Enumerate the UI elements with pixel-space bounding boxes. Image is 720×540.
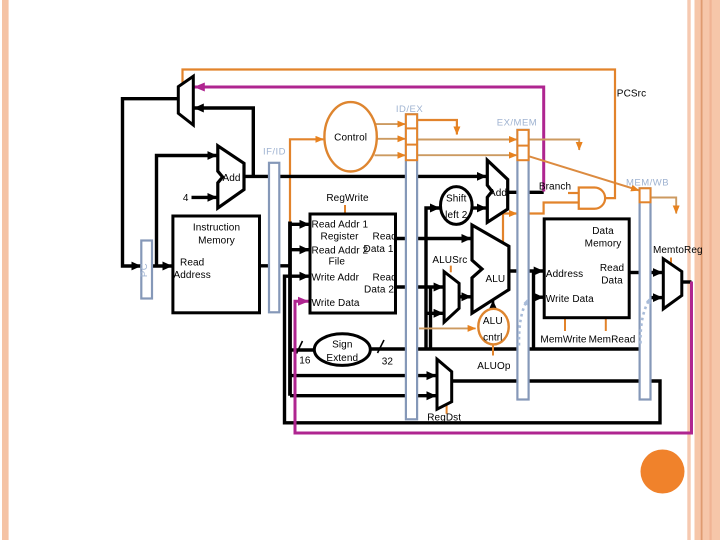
pipeline register EX/MEM (517, 130, 528, 400)
wire ID/EX control to EX/MEM cell 1 (417, 139, 517, 141)
sign extend oval (314, 334, 370, 366)
wire Control M output to ID/EX (377, 138, 406, 140)
dashed move arrow inside EX/MEM (519, 299, 528, 346)
wire branch target magenta to PC mux (194, 87, 543, 192)
svg-text:Instruction: Instruction (193, 223, 240, 234)
data memory (544, 219, 629, 318)
svg-text:File: File (329, 257, 346, 268)
bus width tick 32 (378, 340, 385, 353)
wire PC+4 from Add to branch Add (244, 175, 486, 178)
wire PCSrc from AND gate to PC mux select (183, 70, 616, 199)
mux ALUSrc (444, 272, 459, 323)
wire instruction opcode to Control (290, 139, 323, 223)
svg-text:ALUSrc: ALUSrc (432, 255, 467, 266)
wire ID/EX EX control elbow (417, 120, 457, 135)
svg-text:MEM/WB: MEM/WB (626, 178, 669, 189)
svg-text:Address: Address (546, 269, 583, 280)
label stub MemRead (605, 319, 607, 332)
wire Zero from EX/MEM to AND gate (529, 203, 579, 214)
wire riser to Shift left 2 and ALUSrc (426, 208, 440, 349)
wire ALU Zero to EX/MEM (503, 214, 517, 244)
svg-text:Shift: Shift (446, 194, 467, 205)
wire rd field to RegDst mux (290, 394, 436, 397)
svg-text:ALUOp: ALUOp (477, 361, 511, 372)
svg-text:Read Addr 1: Read Addr 1 (312, 220, 369, 231)
wire MEM/WB WB control elbow (651, 198, 677, 214)
label stub RegDst (446, 403, 448, 414)
wire PC+4 feedback to PC mux (194, 108, 253, 176)
mux MemtoReg (663, 259, 682, 309)
wire constant 4 into Add (192, 196, 217, 199)
svg-text:Write Data: Write Data (312, 298, 360, 309)
wire PC value up to Add (157, 156, 217, 267)
wire ALUSrc mux to ALU (459, 295, 471, 298)
wire EX/MEM WB control diagonal to MEM/WB (529, 156, 639, 190)
svg-text:32: 32 (382, 357, 394, 368)
pipeline register ID/EX (406, 114, 417, 419)
svg-text:Add: Add (489, 188, 507, 199)
svg-text:EX/MEM: EX/MEM (497, 118, 537, 129)
wire rt field to RegDst mux (290, 374, 436, 377)
wire Control EX output to ID/EX (375, 154, 406, 156)
wire Control WB output to ID/EX (375, 123, 406, 125)
wire EX/MEM M control elbow (529, 140, 580, 151)
svg-text:Control: Control (334, 133, 367, 144)
svg-text:Write Addr: Write Addr (312, 272, 360, 283)
svg-text:Extend: Extend (326, 353, 358, 364)
svg-text:PCSrc: PCSrc (617, 88, 646, 99)
wire sign extended value bus under Data Memory (370, 347, 640, 350)
wire Read Data 1 to ALU (396, 237, 472, 240)
wire MemtoReg mux output (682, 280, 692, 283)
svg-text:Read: Read (373, 272, 397, 283)
wire Read Data 2 down to write data bus (429, 287, 432, 349)
wire PC to Instruction Memory Read Address (152, 264, 172, 267)
svg-text:cntrl: cntrl (483, 333, 502, 344)
svg-text:Memory: Memory (198, 236, 235, 247)
control unit oval (324, 102, 376, 171)
wire instruction from Instruction Memory to IF/ID (260, 264, 291, 267)
wire ALU control bottom stub (492, 345, 494, 355)
wire instruction to Read Addr 2 (290, 248, 309, 251)
shift left 2 oval (441, 187, 473, 225)
label stub MemtoReg (670, 258, 672, 267)
AND gate branch (579, 188, 605, 209)
svg-text:IF/ID: IF/ID (263, 147, 286, 158)
wire Branch control stub to AND gate (568, 192, 578, 194)
adder Add branch target (487, 160, 507, 222)
svg-text:Register: Register (321, 231, 360, 242)
svg-text:Add: Add (223, 173, 241, 184)
svg-text:ID/EX: ID/EX (396, 104, 423, 115)
svg-text:Address: Address (174, 270, 211, 281)
wire to Data Memory Write Data (534, 296, 544, 299)
register file (310, 214, 397, 313)
svg-text:4: 4 (183, 193, 189, 204)
ID/EX control cells (406, 114, 417, 160)
svg-text:Sign: Sign (332, 340, 352, 351)
wire sign extend to ALUSrc mux input 2 (426, 312, 443, 315)
pipeline register MEM/WB (640, 188, 651, 399)
svg-text:RegDst: RegDst (427, 413, 461, 424)
svg-text:RegWrite: RegWrite (326, 193, 369, 204)
wire PC mux output to PC (123, 99, 179, 266)
adder Add PC+4 (218, 146, 244, 208)
svg-text:Data 2: Data 2 (364, 284, 394, 295)
svg-text:MemtoReg: MemtoReg (653, 245, 703, 256)
svg-text:Data 1: Data 1 (364, 244, 394, 255)
dashed move arrow inside MEM/WB (640, 297, 650, 344)
bus width tick 16 (297, 341, 303, 354)
mux PCSrc (top left) (178, 76, 193, 125)
wire Shift left 2 to branch Add (472, 206, 486, 209)
svg-text:ALU: ALU (486, 274, 506, 285)
svg-text:Read: Read (600, 263, 624, 274)
svg-text:ALU: ALU (483, 316, 503, 327)
wire ALU result riser (532, 271, 535, 349)
instruction memory (173, 216, 260, 313)
wire MEM/WB to MemtoReg mux input 2 (651, 296, 663, 299)
wire ID/EX control to EX/MEM cell 2 (417, 154, 517, 156)
svg-text:left 2: left 2 (445, 210, 468, 221)
ALU (472, 225, 509, 313)
wire ALUOp to ALU control (419, 327, 476, 329)
wire RegDst mux output loop to Write Addr (285, 276, 661, 423)
wire ALU result to Data Memory Address (509, 269, 543, 272)
pipeline register IF/ID (269, 163, 279, 312)
mux RegDst (437, 359, 452, 409)
wire ALU control to ALU (492, 301, 495, 312)
svg-text:MemRead: MemRead (589, 335, 636, 346)
svg-text:Memory: Memory (585, 239, 622, 250)
svg-text:Write Data: Write Data (546, 294, 594, 305)
svg-text:Read: Read (180, 258, 204, 269)
svg-text:Branch: Branch (539, 182, 571, 193)
wire instruction to Read Addr 1 (290, 223, 309, 226)
register PC (139, 241, 152, 299)
decorative orange circle (641, 450, 685, 494)
label stub MemWrite (564, 319, 566, 332)
wire Read Data out of Data Memory (629, 271, 640, 274)
EX/MEM control cells (517, 130, 528, 160)
svg-text:16: 16 (299, 356, 311, 367)
ALU control oval (478, 309, 508, 345)
svg-text:MemWrite: MemWrite (540, 335, 587, 346)
wire branch target from Add to EX/MEM (508, 191, 544, 194)
wire Read Data 2 to ALUSrc mux input 1 (396, 285, 444, 288)
wire immediate to Sign Extend (290, 348, 315, 351)
MEM/WB control cell (640, 188, 651, 202)
svg-text:Read Addr 2: Read Addr 2 (312, 246, 369, 257)
label stub ALUSrc (450, 266, 452, 273)
wire write back magenta to Register File Write Data (295, 282, 692, 434)
svg-text:Data: Data (592, 226, 614, 237)
svg-text:Data: Data (601, 275, 623, 286)
svg-text:PC: PC (139, 263, 150, 277)
label stub RegWrite (344, 205, 346, 213)
wire MEM/WB to MemtoReg mux input 1 (651, 271, 663, 274)
wire instruction bus vertical (288, 222, 292, 396)
svg-text:Read: Read (373, 231, 397, 242)
